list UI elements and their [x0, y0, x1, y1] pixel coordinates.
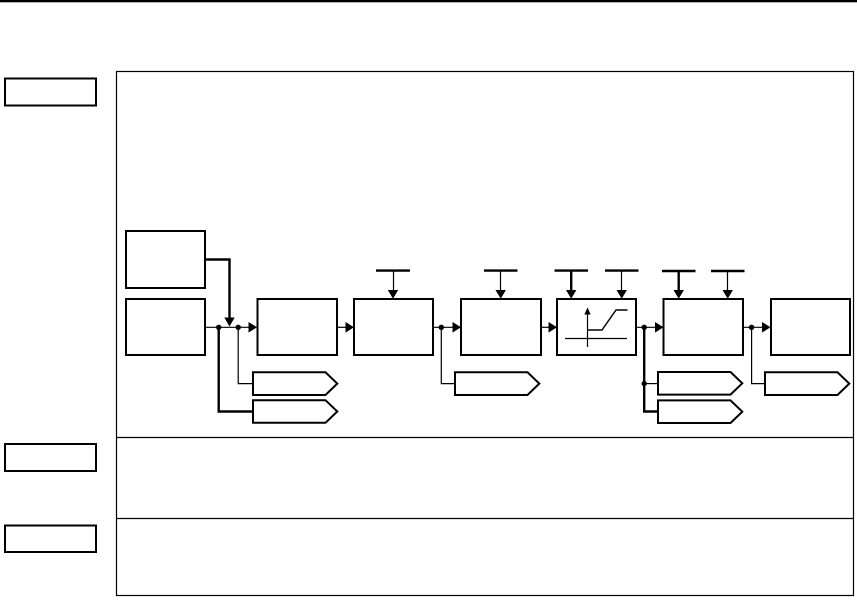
parameter input T1 stem — [393, 271, 395, 291]
block B6 limiter — [557, 299, 636, 355]
limiter x-axis — [565, 338, 627, 340]
arrowhead into B3 — [249, 322, 258, 333]
wire junction B to connector H1 — [238, 327, 253, 383]
parameter input T4 arrowhead — [617, 290, 627, 299]
block B8 — [771, 299, 850, 355]
wire junction C to connector H3 — [441, 327, 455, 383]
junction dot D — [642, 325, 647, 330]
arrowhead into B6 — [549, 322, 558, 333]
left margin label box 1 — [5, 79, 96, 106]
parameter input T3 stem thick — [570, 271, 572, 291]
arrowhead into B5 — [453, 322, 462, 333]
block B1 — [126, 231, 205, 288]
limiter saturation curve — [588, 310, 628, 330]
parameter input T2 arrowhead — [496, 290, 506, 299]
parameter input T6 arrowhead — [723, 290, 733, 299]
arrowhead into B4 — [346, 322, 355, 333]
junction dot C — [439, 325, 444, 330]
block B4 — [354, 299, 433, 355]
block B2 — [126, 299, 205, 355]
connector H5 — [658, 400, 742, 423]
block B5 — [461, 299, 541, 355]
wire B5 to B6 — [541, 326, 549, 328]
parameter input T1 bar — [376, 269, 410, 271]
junction dot A — [216, 325, 221, 330]
left margin label box 3 — [5, 526, 96, 553]
connector H1 — [253, 372, 337, 395]
wire B2 to B3 — [205, 326, 249, 328]
parameter input T4 bar — [605, 269, 639, 271]
wire junction A to connector H2 — [219, 327, 253, 411]
parameter input T6 bar — [711, 270, 745, 272]
connector H6 — [765, 372, 849, 395]
outer frame — [117, 72, 854, 596]
block B3 — [258, 299, 338, 355]
limiter y-axis — [587, 313, 589, 347]
junction dot E — [642, 381, 647, 386]
limiter y-axis arrowhead — [584, 308, 590, 315]
wire B6 to B7 — [636, 326, 655, 328]
wire junction D down to connector H5 — [644, 327, 658, 411]
top header bar — [0, 0, 857, 2]
connector H4 — [658, 372, 742, 395]
left margin label box 2 — [5, 444, 96, 471]
connector H3 — [455, 372, 539, 395]
parameter input T2 bar — [484, 269, 518, 271]
parameter input T3 bar — [555, 269, 589, 271]
parameter input T5 arrowhead — [674, 290, 684, 299]
wire junction F to connector H6 — [752, 327, 765, 383]
divider line 1 — [117, 437, 854, 439]
connector H2 — [253, 400, 337, 423]
arrowhead down from B1 — [224, 318, 234, 327]
parameter input T2 stem — [500, 271, 502, 291]
parameter input T4 stem — [621, 271, 623, 291]
junction dot B — [236, 325, 241, 330]
parameter input T3 arrowhead — [566, 290, 576, 299]
junction dot F — [749, 325, 754, 330]
divider line 2 — [117, 518, 854, 520]
arrowhead into B7 — [655, 322, 664, 333]
wire B4 to B5 — [433, 326, 453, 328]
parameter input T5 stem thick — [678, 271, 680, 291]
wire B3 to B4 — [337, 326, 346, 328]
parameter input T5 bar — [662, 270, 696, 272]
arrowhead into B8 — [762, 322, 771, 333]
wire B7 to B8 — [743, 326, 762, 328]
wire junction E to connector H4 — [644, 383, 658, 385]
parameter input T6 stem — [727, 271, 729, 291]
parameter input T1 arrowhead — [388, 290, 398, 299]
block B7 — [664, 299, 744, 355]
wire B1 to summing point — [205, 260, 230, 319]
